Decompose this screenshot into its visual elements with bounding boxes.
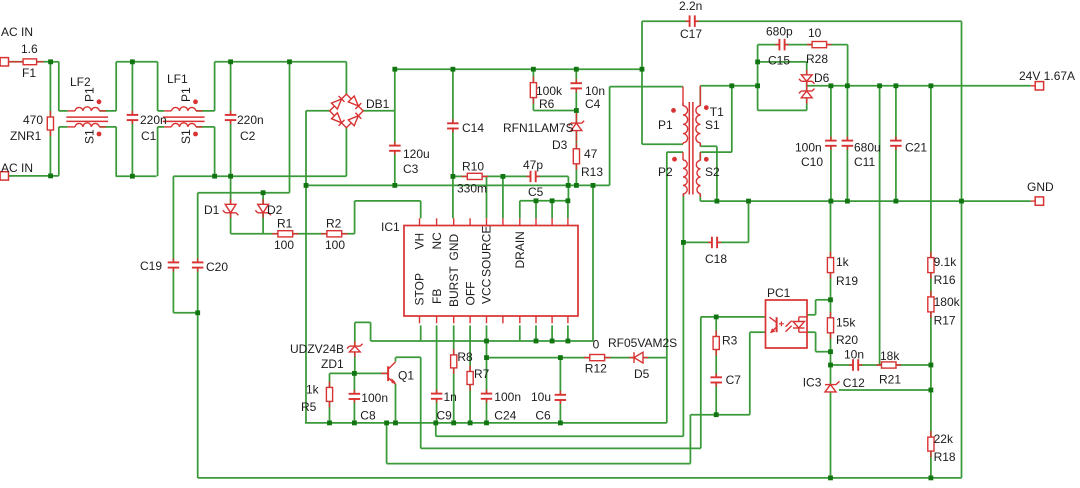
svg-text:9.1k: 9.1k: [934, 255, 958, 269]
svg-text:SOURCE: SOURCE: [480, 226, 494, 277]
svg-text:ZD1: ZD1: [321, 357, 344, 371]
svg-text:STOP: STOP: [413, 273, 427, 305]
svg-text:Q1: Q1: [398, 369, 414, 383]
svg-text:15k: 15k: [836, 316, 856, 330]
svg-text:C8: C8: [360, 409, 376, 423]
svg-text:1n: 1n: [444, 390, 457, 404]
svg-text:1.6: 1.6: [21, 42, 38, 56]
svg-text:P1: P1: [179, 87, 193, 102]
svg-text:C9: C9: [437, 409, 453, 423]
svg-text:C21: C21: [905, 141, 927, 155]
svg-text:BURST: BURST: [447, 266, 461, 307]
svg-text:C5: C5: [528, 185, 544, 199]
svg-text:C19: C19: [140, 259, 162, 273]
svg-text:C10: C10: [801, 155, 823, 169]
svg-text:C24: C24: [494, 409, 516, 423]
svg-text:R5: R5: [301, 400, 317, 414]
svg-text:S2: S2: [705, 165, 720, 179]
svg-text:C7: C7: [726, 373, 742, 387]
svg-text:S1: S1: [83, 129, 97, 144]
svg-text:220n: 220n: [140, 113, 167, 127]
svg-text:D1: D1: [204, 203, 220, 217]
svg-text:T1: T1: [710, 105, 724, 119]
svg-text:470: 470: [23, 113, 43, 127]
svg-text:10n: 10n: [844, 348, 864, 362]
svg-text:680u: 680u: [854, 141, 881, 155]
svg-text:GND: GND: [1027, 180, 1054, 194]
svg-text:C14: C14: [462, 121, 484, 135]
svg-text:R28: R28: [806, 52, 828, 66]
svg-text:10n: 10n: [585, 84, 605, 98]
svg-text:DB1: DB1: [366, 97, 390, 111]
svg-text:GND: GND: [447, 234, 461, 261]
svg-text:47p: 47p: [523, 158, 543, 172]
svg-text:ZNR1: ZNR1: [10, 129, 42, 143]
svg-text:D6: D6: [814, 71, 830, 85]
svg-text:C3: C3: [403, 162, 419, 176]
svg-text:C2: C2: [240, 129, 256, 143]
svg-text:DRAIN: DRAIN: [513, 231, 527, 268]
svg-text:100: 100: [325, 238, 345, 252]
svg-text:10: 10: [808, 26, 822, 40]
svg-text:VCC: VCC: [480, 278, 494, 304]
svg-text:RFN1LAM7S: RFN1LAM7S: [503, 121, 574, 135]
svg-text:R19: R19: [836, 274, 858, 288]
svg-text:R12: R12: [585, 362, 607, 376]
svg-text:D2: D2: [267, 203, 283, 217]
svg-text:C6: C6: [535, 409, 551, 423]
svg-text:AC IN: AC IN: [1, 25, 33, 39]
svg-text:C12: C12: [843, 376, 865, 390]
svg-text:C1: C1: [141, 129, 157, 143]
svg-text:R20: R20: [836, 333, 858, 347]
svg-text:LF1: LF1: [167, 72, 188, 86]
svg-text:VH: VH: [413, 233, 427, 250]
svg-text:100: 100: [274, 238, 294, 252]
svg-text:R8: R8: [457, 350, 473, 364]
svg-text:47: 47: [584, 147, 598, 161]
svg-text:680p: 680p: [766, 25, 793, 39]
svg-text:P1: P1: [658, 118, 673, 132]
svg-text:0: 0: [593, 338, 600, 352]
svg-text:RF05VAM2S: RF05VAM2S: [608, 336, 677, 350]
svg-text:PC1: PC1: [767, 286, 791, 300]
svg-text:C18: C18: [705, 252, 727, 266]
svg-text:C20: C20: [206, 260, 228, 274]
svg-text:R10: R10: [462, 160, 484, 174]
svg-text:D5: D5: [634, 367, 650, 381]
svg-text:IC1: IC1: [381, 220, 400, 234]
svg-text:S1: S1: [179, 129, 193, 144]
svg-text:100k: 100k: [536, 84, 563, 98]
svg-text:R7: R7: [474, 367, 490, 381]
svg-text:1k: 1k: [306, 383, 320, 397]
svg-text:UDZV24B: UDZV24B: [290, 342, 344, 356]
svg-text:10u: 10u: [531, 390, 551, 404]
svg-text:P1: P1: [83, 87, 97, 102]
svg-text:C17: C17: [680, 27, 702, 41]
svg-text:R17: R17: [934, 314, 956, 328]
svg-text:OFF: OFF: [463, 282, 477, 306]
svg-text:R1: R1: [277, 217, 293, 231]
svg-text:180k: 180k: [934, 295, 961, 309]
svg-text:1k: 1k: [836, 255, 850, 269]
svg-text:S1: S1: [705, 118, 720, 132]
svg-text:NC: NC: [430, 232, 444, 250]
svg-text:LF2: LF2: [70, 75, 91, 89]
svg-text:R21: R21: [879, 373, 901, 387]
svg-text:18k: 18k: [880, 349, 900, 363]
svg-text:100n: 100n: [361, 391, 388, 405]
svg-text:F1: F1: [22, 66, 36, 80]
svg-text:R18: R18: [934, 450, 956, 464]
svg-text:100n: 100n: [795, 141, 822, 155]
svg-text:D3: D3: [552, 138, 568, 152]
svg-text:C15: C15: [768, 54, 790, 68]
svg-text:R13: R13: [581, 165, 603, 179]
svg-text:R6: R6: [539, 97, 555, 111]
svg-text:C4: C4: [585, 97, 601, 111]
svg-text:330m: 330m: [457, 182, 487, 196]
svg-text:FB: FB: [430, 289, 444, 304]
svg-text:R16: R16: [934, 273, 956, 287]
svg-text:IC3: IC3: [803, 376, 822, 390]
svg-text:220n: 220n: [237, 113, 264, 127]
svg-text:P2: P2: [658, 165, 673, 179]
svg-text:AC IN: AC IN: [1, 161, 33, 175]
svg-text:100n: 100n: [494, 390, 521, 404]
svg-text:120u: 120u: [403, 147, 430, 161]
svg-text:R2: R2: [326, 217, 342, 231]
svg-text:C11: C11: [854, 155, 875, 169]
svg-text:2.2n: 2.2n: [679, 0, 702, 13]
svg-text:R3: R3: [722, 334, 738, 348]
svg-text:24V 1.67A: 24V 1.67A: [1019, 69, 1075, 83]
svg-text:22k: 22k: [934, 432, 954, 446]
